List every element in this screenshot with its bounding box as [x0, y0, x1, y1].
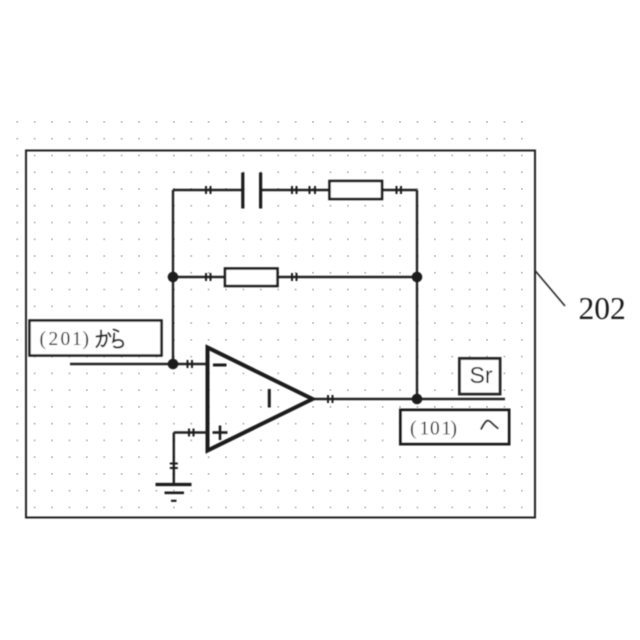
op-amp plus: [213, 426, 228, 441]
wire inverting input: [70, 363, 208, 365]
svg-text:0: 0: [430, 419, 440, 440]
tick marks inverting input: [188, 360, 193, 368]
wire middle branch: [173, 276, 417, 278]
op-amp U1: [208, 348, 313, 451]
wire to ground: [173, 433, 175, 485]
tick marks middle branch: [206, 273, 297, 281]
wire left vertical branch: [172, 190, 174, 364]
box Sr: [460, 359, 501, 395]
wire non-inverting input: [174, 431, 208, 433]
op-amp label bar: [268, 389, 271, 408]
op-amp minus: [213, 364, 227, 367]
svg-text:202: 202: [579, 291, 626, 326]
svg-text:): ): [83, 329, 90, 350]
junction node top-left: [168, 272, 179, 283]
wire top feedback branch: [173, 189, 417, 191]
svg-text:2: 2: [49, 329, 59, 350]
svg-text:1: 1: [72, 329, 82, 350]
ground: [156, 485, 192, 501]
label box (201) kara: [30, 321, 162, 356]
capacitor C: [243, 173, 261, 209]
label box (101) he: [401, 410, 510, 444]
tick marks ground wire: [170, 464, 178, 469]
glyph ra: [113, 330, 123, 348]
resistor top: [330, 181, 383, 199]
svg-text:): ): [451, 419, 458, 440]
frame box 202: [26, 151, 535, 518]
svg-text:1: 1: [420, 419, 430, 440]
tick marks output: [328, 395, 333, 403]
wire output: [313, 398, 506, 401]
glyph he: [481, 421, 497, 429]
svg-text:(: (: [40, 329, 47, 350]
tick marks top branch: [206, 186, 401, 194]
svg-text:(: (: [410, 419, 417, 440]
resistor middle: [225, 269, 278, 287]
tick marks non-inverting input: [189, 429, 194, 437]
leader line to 202: [535, 271, 565, 307]
junction node top-right: [412, 272, 423, 283]
wire right vertical branch: [416, 190, 418, 399]
svg-text:0: 0: [61, 329, 71, 350]
glyph ka: [97, 331, 111, 348]
junction node inverting input: [168, 359, 179, 370]
junction node output: [412, 394, 423, 405]
svg-text:Sr: Sr: [470, 362, 493, 388]
